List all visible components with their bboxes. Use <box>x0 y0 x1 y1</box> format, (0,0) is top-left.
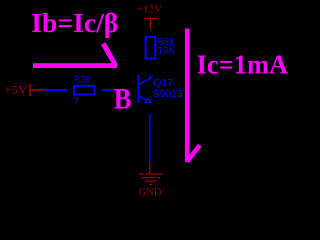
svg-text:GND: GND <box>139 185 162 199</box>
ground <box>139 162 163 199</box>
wire <box>44 89 68 91</box>
svg-text:B: B <box>114 83 132 115</box>
svg-text:Q17: Q17 <box>153 78 174 89</box>
wire <box>102 89 115 91</box>
svg-text:R39: R39 <box>74 74 90 85</box>
annotation arrow base current <box>33 44 117 66</box>
power port +12V <box>137 5 163 30</box>
svg-text:Ic=1mA: Ic=1mA <box>197 50 289 80</box>
resistor R38 <box>146 37 176 59</box>
svg-text:+12V: +12V <box>137 5 163 16</box>
svg-text:S9013: S9013 <box>153 89 183 100</box>
svg-text:10K: 10K <box>157 45 175 56</box>
svg-text:?: ? <box>73 96 79 107</box>
wire <box>149 114 151 162</box>
svg-text:Ib=Ic/β: Ib=Ic/β <box>31 8 118 38</box>
power port +5V <box>4 83 43 97</box>
resistor R39 <box>73 74 95 107</box>
svg-text:+5V: +5V <box>4 83 27 97</box>
annotation arrow collector current <box>187 29 200 163</box>
transistor Q17 <box>139 75 183 103</box>
